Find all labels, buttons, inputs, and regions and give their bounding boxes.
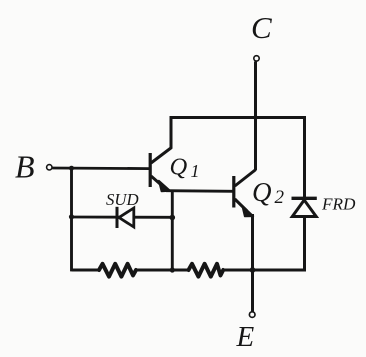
svg-text:FRD: FRD xyxy=(321,195,356,214)
wire: C terminal down to Q2 collector xyxy=(254,62,257,171)
resistor R2 xyxy=(189,264,224,277)
wire: left vertical xyxy=(70,168,73,271)
resistor R1 xyxy=(99,264,136,277)
wire: FRD upper vertical xyxy=(303,116,306,198)
diode FRD xyxy=(292,198,317,216)
svg-text:Q: Q xyxy=(252,177,272,207)
wire: bottom rail segment 3 xyxy=(223,269,306,272)
svg-text:Q: Q xyxy=(170,154,188,181)
node: emitter/bottom-rail junction xyxy=(250,267,256,273)
transistor Q2 xyxy=(234,170,256,217)
terminal E xyxy=(249,312,255,318)
terminal C xyxy=(254,56,259,61)
transistor Q1 xyxy=(150,148,171,192)
svg-text:1: 1 xyxy=(191,161,200,181)
wire: top horizontal collector rail xyxy=(171,116,306,119)
wire: bottom rail segment 2 xyxy=(136,269,189,272)
node: B branch xyxy=(69,166,74,171)
node: SUD left junction xyxy=(69,214,74,219)
wire: SUD anode-cathode rail xyxy=(72,216,173,219)
svg-text:E: E xyxy=(236,321,255,353)
node: rail/C crossing xyxy=(253,115,258,120)
wire: FRD lower vertical xyxy=(303,217,306,272)
wire: middle vertical xyxy=(171,191,174,272)
wire: Q2 emitter down to E xyxy=(251,214,254,312)
node: middle-vertical/bottom-rail junction xyxy=(170,267,175,272)
wire: bottom rail xyxy=(72,269,100,272)
node: SUD right junction xyxy=(170,215,176,221)
svg-text:C: C xyxy=(251,10,272,45)
svg-text:SUD: SUD xyxy=(106,190,139,209)
wire: B to Q1 base xyxy=(52,167,150,170)
svg-text:2: 2 xyxy=(275,187,285,208)
wire: Q1 collector vertical xyxy=(170,116,173,149)
diode SUD xyxy=(117,207,134,228)
svg-text:B: B xyxy=(15,149,35,185)
terminal B xyxy=(47,165,52,170)
wire: Q1 emitter to Q2 base xyxy=(166,189,234,192)
